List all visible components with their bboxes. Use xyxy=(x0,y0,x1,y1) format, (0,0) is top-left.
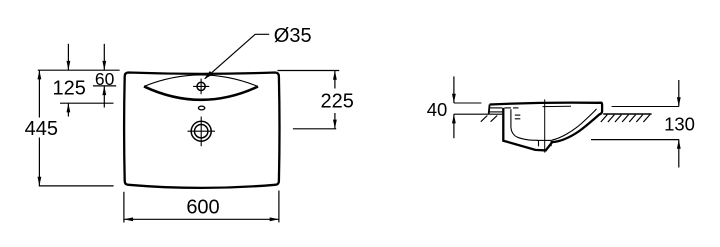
centerline xyxy=(544,99,546,152)
svg-text:Ø35: Ø35 xyxy=(274,25,312,47)
dimension 130 reference line top xyxy=(612,106,679,108)
inner bowl left line xyxy=(511,109,538,140)
svg-text:60: 60 xyxy=(95,69,115,89)
dimension 445 xyxy=(25,70,58,186)
mounting flange lines xyxy=(489,108,519,112)
wall hatching left xyxy=(481,116,497,122)
under-rim inner line xyxy=(543,105,572,107)
counter line right xyxy=(603,113,651,115)
reference line bottom xyxy=(39,185,114,187)
dimension 60 xyxy=(95,44,115,108)
dimension 225 xyxy=(321,71,354,129)
dimension 130 xyxy=(664,80,695,168)
svg-text:125: 125 xyxy=(53,77,86,99)
side view left rim edge xyxy=(488,105,491,114)
basin front-view outline xyxy=(124,73,279,188)
reference line top (line A) xyxy=(38,69,120,71)
leader line to faucet hole xyxy=(204,34,269,79)
bowl rim upper arc xyxy=(144,75,258,87)
wall hatching right xyxy=(601,115,650,122)
side view outer profile xyxy=(490,103,602,151)
fixing screw ticks xyxy=(515,115,521,119)
inner bowl right line xyxy=(552,109,597,140)
svg-text:225: 225 xyxy=(321,91,354,113)
dimension 130 reference line bottom xyxy=(591,139,679,141)
svg-text:40: 40 xyxy=(427,99,448,120)
drain crosshair xyxy=(188,117,216,147)
faucet hole crosshair xyxy=(193,79,209,95)
dimension 40 reference line top xyxy=(454,102,482,104)
bowl rim lower arc xyxy=(144,86,258,99)
reference line 60 level xyxy=(93,85,116,87)
svg-text:445: 445 xyxy=(25,118,58,140)
reference line 125 level xyxy=(60,102,114,104)
svg-text:130: 130 xyxy=(664,113,695,134)
drain recess xyxy=(537,140,552,146)
dimension 40 xyxy=(427,76,456,138)
dimension 600 xyxy=(124,191,279,223)
dimension 125 xyxy=(53,44,86,117)
svg-text:600: 600 xyxy=(186,196,219,218)
overflow hole xyxy=(198,106,204,110)
dimension 225 reference lines xyxy=(278,70,340,72)
counter line left xyxy=(454,113,503,115)
